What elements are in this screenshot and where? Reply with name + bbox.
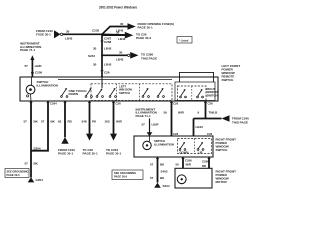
- svg-text:30: 30: [116, 30, 120, 34]
- svg-text:* Listed: * Listed: [179, 38, 189, 42]
- node junction to C280: [101, 54, 103, 56]
- wire bracket to S204: [31, 101, 56, 151]
- svg-text:MOTOR: MOTOR: [216, 180, 228, 184]
- svg-text:S242: S242: [88, 54, 95, 58]
- svg-text:59: 59: [164, 111, 168, 115]
- svg-text:PAGE 71-1: PAGE 71-1: [136, 114, 151, 118]
- text instrument illumination upper: [20, 42, 41, 53]
- svg-text:57: 57: [24, 120, 28, 124]
- svg-text:SWITCH: SWITCH: [216, 148, 228, 152]
- pin ticks main box bottom: [30, 102, 207, 104]
- switch SW2: [85, 88, 92, 97]
- svg-text:TN/LB: TN/LB: [209, 111, 219, 115]
- switch SW6: [157, 88, 164, 97]
- svg-text:57: 57: [150, 162, 154, 166]
- svg-text:30: 30: [120, 22, 124, 26]
- svg-text:RD: RD: [202, 164, 206, 168]
- wire branch LB43 down to bottom box: [194, 119, 213, 137]
- svg-text:57: 57: [150, 176, 154, 180]
- right front window motor box: [175, 168, 212, 188]
- switch SW10: [197, 142, 204, 150]
- svg-text:PAGE 30-1: PAGE 30-1: [106, 152, 121, 156]
- text right front power window motor: [216, 169, 237, 184]
- window lockout jumper: [180, 72, 214, 82]
- pin ticks bottom box: [156, 158, 210, 160]
- wire LB43 feed: [63, 29, 102, 40]
- svg-text:PAGE 30-1: PAGE 30-1: [138, 26, 153, 30]
- ground splice S234: [154, 183, 170, 189]
- switch SW8: [197, 89, 204, 98]
- connector arrow FROM C240: [36, 29, 63, 38]
- wire to C26: [102, 30, 151, 40]
- svg-text:FUSE 30-1: FUSE 30-1: [36, 33, 51, 37]
- wire to C280: [102, 50, 157, 61]
- svg-text:LB/R: LB/R: [35, 64, 43, 68]
- right front window switch box: [134, 136, 213, 157]
- svg-text:LB43: LB43: [104, 62, 112, 66]
- svg-text:57: 57: [41, 120, 45, 124]
- switch SW1: [61, 88, 68, 97]
- svg-text:THIS PAGE: THIS PAGE: [232, 120, 248, 124]
- connector arrow FROM C240 right: [222, 115, 250, 124]
- dashed dividers one-touch box: [117, 84, 140, 101]
- see grounding box left: [5, 169, 29, 178]
- text switch illumination bottom: [154, 139, 174, 146]
- dashed divider right sub-box: [191, 86, 193, 101]
- svg-text:57: 57: [25, 64, 29, 68]
- wire to door opening fuse: [102, 22, 174, 35]
- wire 57 BK bottom ground: [150, 157, 168, 183]
- lamp circle: [26, 77, 35, 101]
- svg-text:C556: C556: [202, 160, 209, 164]
- text left window switch: [119, 84, 132, 94]
- ground splice G204: [28, 177, 43, 182]
- wire 57 LB/R lower: [142, 119, 160, 133]
- svg-text:57: 57: [25, 161, 29, 165]
- svg-text:2001-2002 Power Windows: 2001-2002 Power Windows: [99, 5, 137, 9]
- node S242 junction: [101, 33, 103, 35]
- svg-text:PAGE 30-1: PAGE 30-1: [58, 152, 73, 156]
- svg-text:C264: C264: [50, 102, 57, 106]
- svg-text:PAGE 30-0: PAGE 30-0: [7, 173, 21, 177]
- svg-text:PAGE 30-1: PAGE 30-1: [83, 152, 98, 156]
- dashed box down/up switches: [178, 139, 212, 154]
- svg-text:W/R: W/R: [178, 111, 185, 115]
- switch SW7: [180, 89, 187, 98]
- svg-text:LB43: LB43: [65, 37, 73, 41]
- svg-text:LB43: LB43: [196, 125, 204, 129]
- connector arrow TO C26 bottom: [83, 134, 98, 156]
- svg-text:C26: C26: [208, 102, 214, 106]
- svg-text:DOWN: DOWN: [69, 92, 79, 96]
- connector arrow instrument illumination: [30, 55, 34, 60]
- svg-text:LB43: LB43: [118, 37, 126, 41]
- svg-text:30: 30: [119, 50, 123, 54]
- connector arrow TO C264 bottom: [106, 134, 121, 156]
- svg-text:C26: C26: [173, 132, 179, 136]
- switch SW3: [96, 89, 103, 98]
- svg-text:LB/R: LB/R: [152, 123, 160, 127]
- svg-text:C235: C235: [92, 29, 100, 33]
- dashed divider down/up box: [193, 139, 195, 154]
- svg-text:348: 348: [82, 120, 87, 124]
- wire LB43 into switch: [101, 77, 103, 88]
- svg-text:S204: S204: [34, 146, 41, 150]
- svg-text:DOWN: DOWN: [180, 150, 189, 154]
- svg-text:LB43: LB43: [116, 57, 124, 61]
- svg-text:W/R: W/R: [116, 120, 123, 124]
- svg-text:C26: C26: [116, 102, 122, 106]
- motor circle: [177, 175, 186, 184]
- driver window switch box: [20, 77, 218, 101]
- svg-text:30: 30: [93, 62, 97, 66]
- svg-text:C26: C26: [173, 102, 179, 106]
- wire main riser LB43: [88, 34, 112, 77]
- wire motor feed 2: [202, 157, 209, 168]
- svg-text:SWITCH: SWITCH: [119, 91, 130, 95]
- one touch module line: [58, 79, 172, 81]
- splice arrow into bottom box: [147, 132, 153, 136]
- text switch illumination: [37, 80, 58, 87]
- legend box: [177, 37, 192, 44]
- svg-text:30: 30: [93, 46, 97, 50]
- wire to C26 bottom: [82, 101, 98, 134]
- wire A left front to bottom box: [164, 101, 185, 136]
- svg-text:THIS PAGE: THIS PAGE: [141, 56, 157, 60]
- svg-text:SWITCH: SWITCH: [207, 93, 218, 97]
- wire 57 LB/R: [25, 60, 43, 77]
- svg-text:63: 63: [58, 120, 62, 124]
- dashed box right window switch: [178, 86, 207, 101]
- wire B to junction: [198, 101, 219, 119]
- svg-text:ILLUMINATION: ILLUMINATION: [154, 142, 174, 146]
- splice C250: [31, 70, 43, 74]
- svg-text:W/R: W/R: [186, 163, 191, 167]
- text left front power window remote switch: [222, 64, 241, 82]
- connector arrow FROM C240 bottom: [58, 137, 75, 156]
- svg-text:S234: S234: [163, 184, 170, 188]
- inner sub-box right window switch: [175, 82, 215, 101]
- switch SW4: [109, 88, 116, 97]
- svg-text:ILLUMINATION: ILLUMINATION: [37, 83, 58, 87]
- svg-text:C26: C26: [207, 132, 213, 136]
- svg-text:30: 30: [66, 29, 70, 33]
- switch SW5: [142, 88, 149, 97]
- svg-text:UP: UP: [199, 150, 203, 154]
- svg-text:C268: C268: [104, 40, 112, 44]
- svg-text:S402: S402: [161, 169, 168, 173]
- svg-text:PAGE 30-0: PAGE 30-0: [114, 175, 128, 179]
- svg-text:G204: G204: [36, 178, 44, 182]
- svg-text:LB43: LB43: [104, 46, 112, 50]
- svg-text:57: 57: [142, 123, 146, 127]
- wire 57 BK ground run: [24, 101, 39, 178]
- svg-text:163: 163: [105, 120, 110, 124]
- svg-text:SWITCH: SWITCH: [222, 78, 234, 82]
- dashed box left window switch: [91, 84, 172, 101]
- svg-text:PAGE 30-2: PAGE 30-2: [136, 36, 151, 40]
- svg-text:C26: C26: [104, 70, 110, 74]
- lamp circle bottom: [143, 136, 151, 150]
- text one touch down: [69, 89, 87, 96]
- svg-text:C250: C250: [35, 71, 43, 75]
- wire motor feed 1: [176, 157, 193, 168]
- switch SW9: [179, 142, 186, 150]
- text instrument illumination lower: [136, 107, 157, 118]
- svg-text:59: 59: [176, 163, 180, 167]
- see grounding box right: [112, 170, 143, 180]
- wire to FROM C240 bottom: [58, 101, 73, 137]
- text right window switch (inner): [207, 87, 220, 97]
- wire to C264 bottom: [105, 101, 123, 134]
- text right front power window switch: [216, 137, 237, 152]
- wire to FROM C240 right arrow: [194, 118, 222, 120]
- svg-text:PAGE 71-1: PAGE 71-1: [20, 48, 35, 52]
